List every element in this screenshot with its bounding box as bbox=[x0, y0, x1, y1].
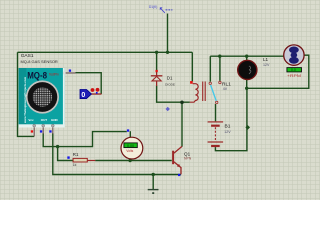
svg-text:OUT: OUT bbox=[41, 118, 48, 122]
svg-text:12V: 12V bbox=[263, 63, 270, 67]
svg-text:L1: L1 bbox=[263, 57, 269, 62]
svg-text:B1: B1 bbox=[225, 124, 231, 130]
svg-text:MQ-8: MQ-8 bbox=[27, 70, 47, 80]
svg-text:D1: D1 bbox=[167, 76, 173, 81]
svg-text:0.00: 0.00 bbox=[127, 144, 134, 148]
svg-text:TestPin: TestPin bbox=[49, 73, 59, 77]
svg-text:4V: 4V bbox=[223, 87, 228, 91]
svg-text:D1(K): D1(K) bbox=[149, 5, 157, 9]
svg-text:GAS1: GAS1 bbox=[21, 53, 34, 59]
svg-text:1k: 1k bbox=[73, 163, 77, 167]
svg-text:12V: 12V bbox=[224, 130, 231, 134]
svg-text:Q1: Q1 bbox=[184, 151, 191, 156]
svg-text:0: 0 bbox=[81, 92, 85, 99]
svg-text:R1: R1 bbox=[73, 152, 79, 157]
svg-text:Volts: Volts bbox=[126, 149, 133, 153]
svg-text:0.0: 0.0 bbox=[291, 68, 296, 72]
svg-text:GND: GND bbox=[51, 118, 59, 122]
svg-text:Vcc: Vcc bbox=[28, 118, 34, 122]
svg-text:+RPM: +RPM bbox=[287, 74, 301, 78]
svg-text:DIODE: DIODE bbox=[165, 82, 175, 86]
svg-text:www.TheEngineeringProjects.com: www.TheEngineeringProjects.com bbox=[23, 77, 27, 124]
svg-text:MQ-8 GAS SENSOR: MQ-8 GAS SENSOR bbox=[21, 60, 59, 64]
svg-text:NPN: NPN bbox=[184, 157, 192, 161]
